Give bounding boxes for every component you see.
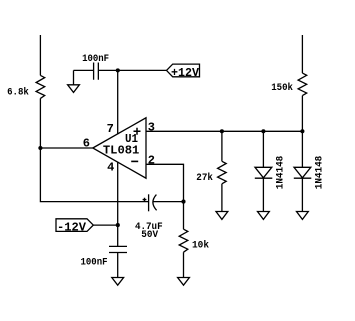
svg-text:3: 3 bbox=[148, 121, 155, 135]
junction node cap-10k bbox=[181, 200, 185, 204]
wire pin 4 supply column bbox=[117, 162, 119, 247]
junction node V+ bbox=[116, 68, 120, 72]
svg-text:1N4148: 1N4148 bbox=[315, 156, 326, 190]
power -12V bbox=[56, 219, 93, 235]
junction node bus-27k bbox=[220, 129, 224, 133]
svg-text:TL081: TL081 bbox=[103, 143, 140, 157]
wire bottom cap lower lead bbox=[117, 253, 119, 278]
wire pin 6 bbox=[40, 147, 92, 149]
svg-text:150k: 150k bbox=[271, 82, 293, 94]
svg-text:100nF: 100nF bbox=[81, 257, 108, 268]
svg-text:1N4148: 1N4148 bbox=[275, 156, 286, 190]
wire cap output lead bbox=[153, 201, 183, 203]
capacitor C2 4.7uF 50V bbox=[135, 194, 163, 241]
resistor R4 150k bbox=[271, 73, 307, 96]
resistor R1 6.8k bbox=[36, 75, 45, 98]
wire -12V lead bbox=[93, 224, 117, 226]
diode D1 1N4148 bbox=[255, 131, 286, 211]
power +12V bbox=[167, 64, 200, 80]
wire left vertical down and along bottom to output cap bbox=[40, 98, 148, 201]
junction node output-to-pin6 bbox=[38, 146, 42, 150]
wire pin 3 bus bbox=[146, 130, 302, 132]
ground bottom cap bbox=[112, 278, 124, 286]
svg-text:27k: 27k bbox=[196, 172, 213, 184]
svg-text:7: 7 bbox=[107, 122, 114, 136]
wire pin 7 supply column bbox=[117, 70, 119, 134]
svg-text:4: 4 bbox=[107, 161, 114, 175]
svg-text:6: 6 bbox=[83, 136, 90, 150]
svg-text:2: 2 bbox=[148, 154, 155, 168]
junction node V- bbox=[116, 223, 120, 227]
ground 10k bbox=[178, 278, 190, 286]
svg-text:6.8k: 6.8k bbox=[7, 86, 29, 98]
ground top-left bbox=[68, 70, 80, 92]
wire right vertical top bbox=[301, 35, 303, 73]
op-amp U1 TL081 bbox=[83, 118, 155, 178]
wire pin 2 to cap output bbox=[146, 164, 184, 201]
diode D2 1N4148 bbox=[294, 131, 326, 211]
svg-text:100nF: 100nF bbox=[82, 54, 109, 65]
ground D2 bbox=[297, 212, 309, 220]
svg-text:-12V: -12V bbox=[57, 221, 87, 235]
capacitor C3 100nF bottom bbox=[81, 246, 128, 268]
svg-text:+12V: +12V bbox=[171, 66, 200, 80]
resistor R2 10k bbox=[179, 202, 209, 278]
junction node bus-150k bbox=[300, 129, 304, 133]
wire top cap left lead bbox=[74, 69, 94, 71]
junction node bus-D1 bbox=[261, 129, 265, 133]
svg-text:50V: 50V bbox=[141, 230, 158, 241]
wire left vertical top bbox=[39, 35, 41, 75]
wire 150k to bus bbox=[301, 96, 303, 132]
resistor R3 27k bbox=[196, 131, 226, 211]
ground D1 bbox=[258, 212, 270, 220]
ground 27k bbox=[216, 212, 228, 220]
svg-text:10k: 10k bbox=[192, 239, 209, 251]
capacitor C1 100nF top bbox=[82, 54, 109, 80]
wire top cap right lead to +12V bbox=[98, 69, 166, 71]
